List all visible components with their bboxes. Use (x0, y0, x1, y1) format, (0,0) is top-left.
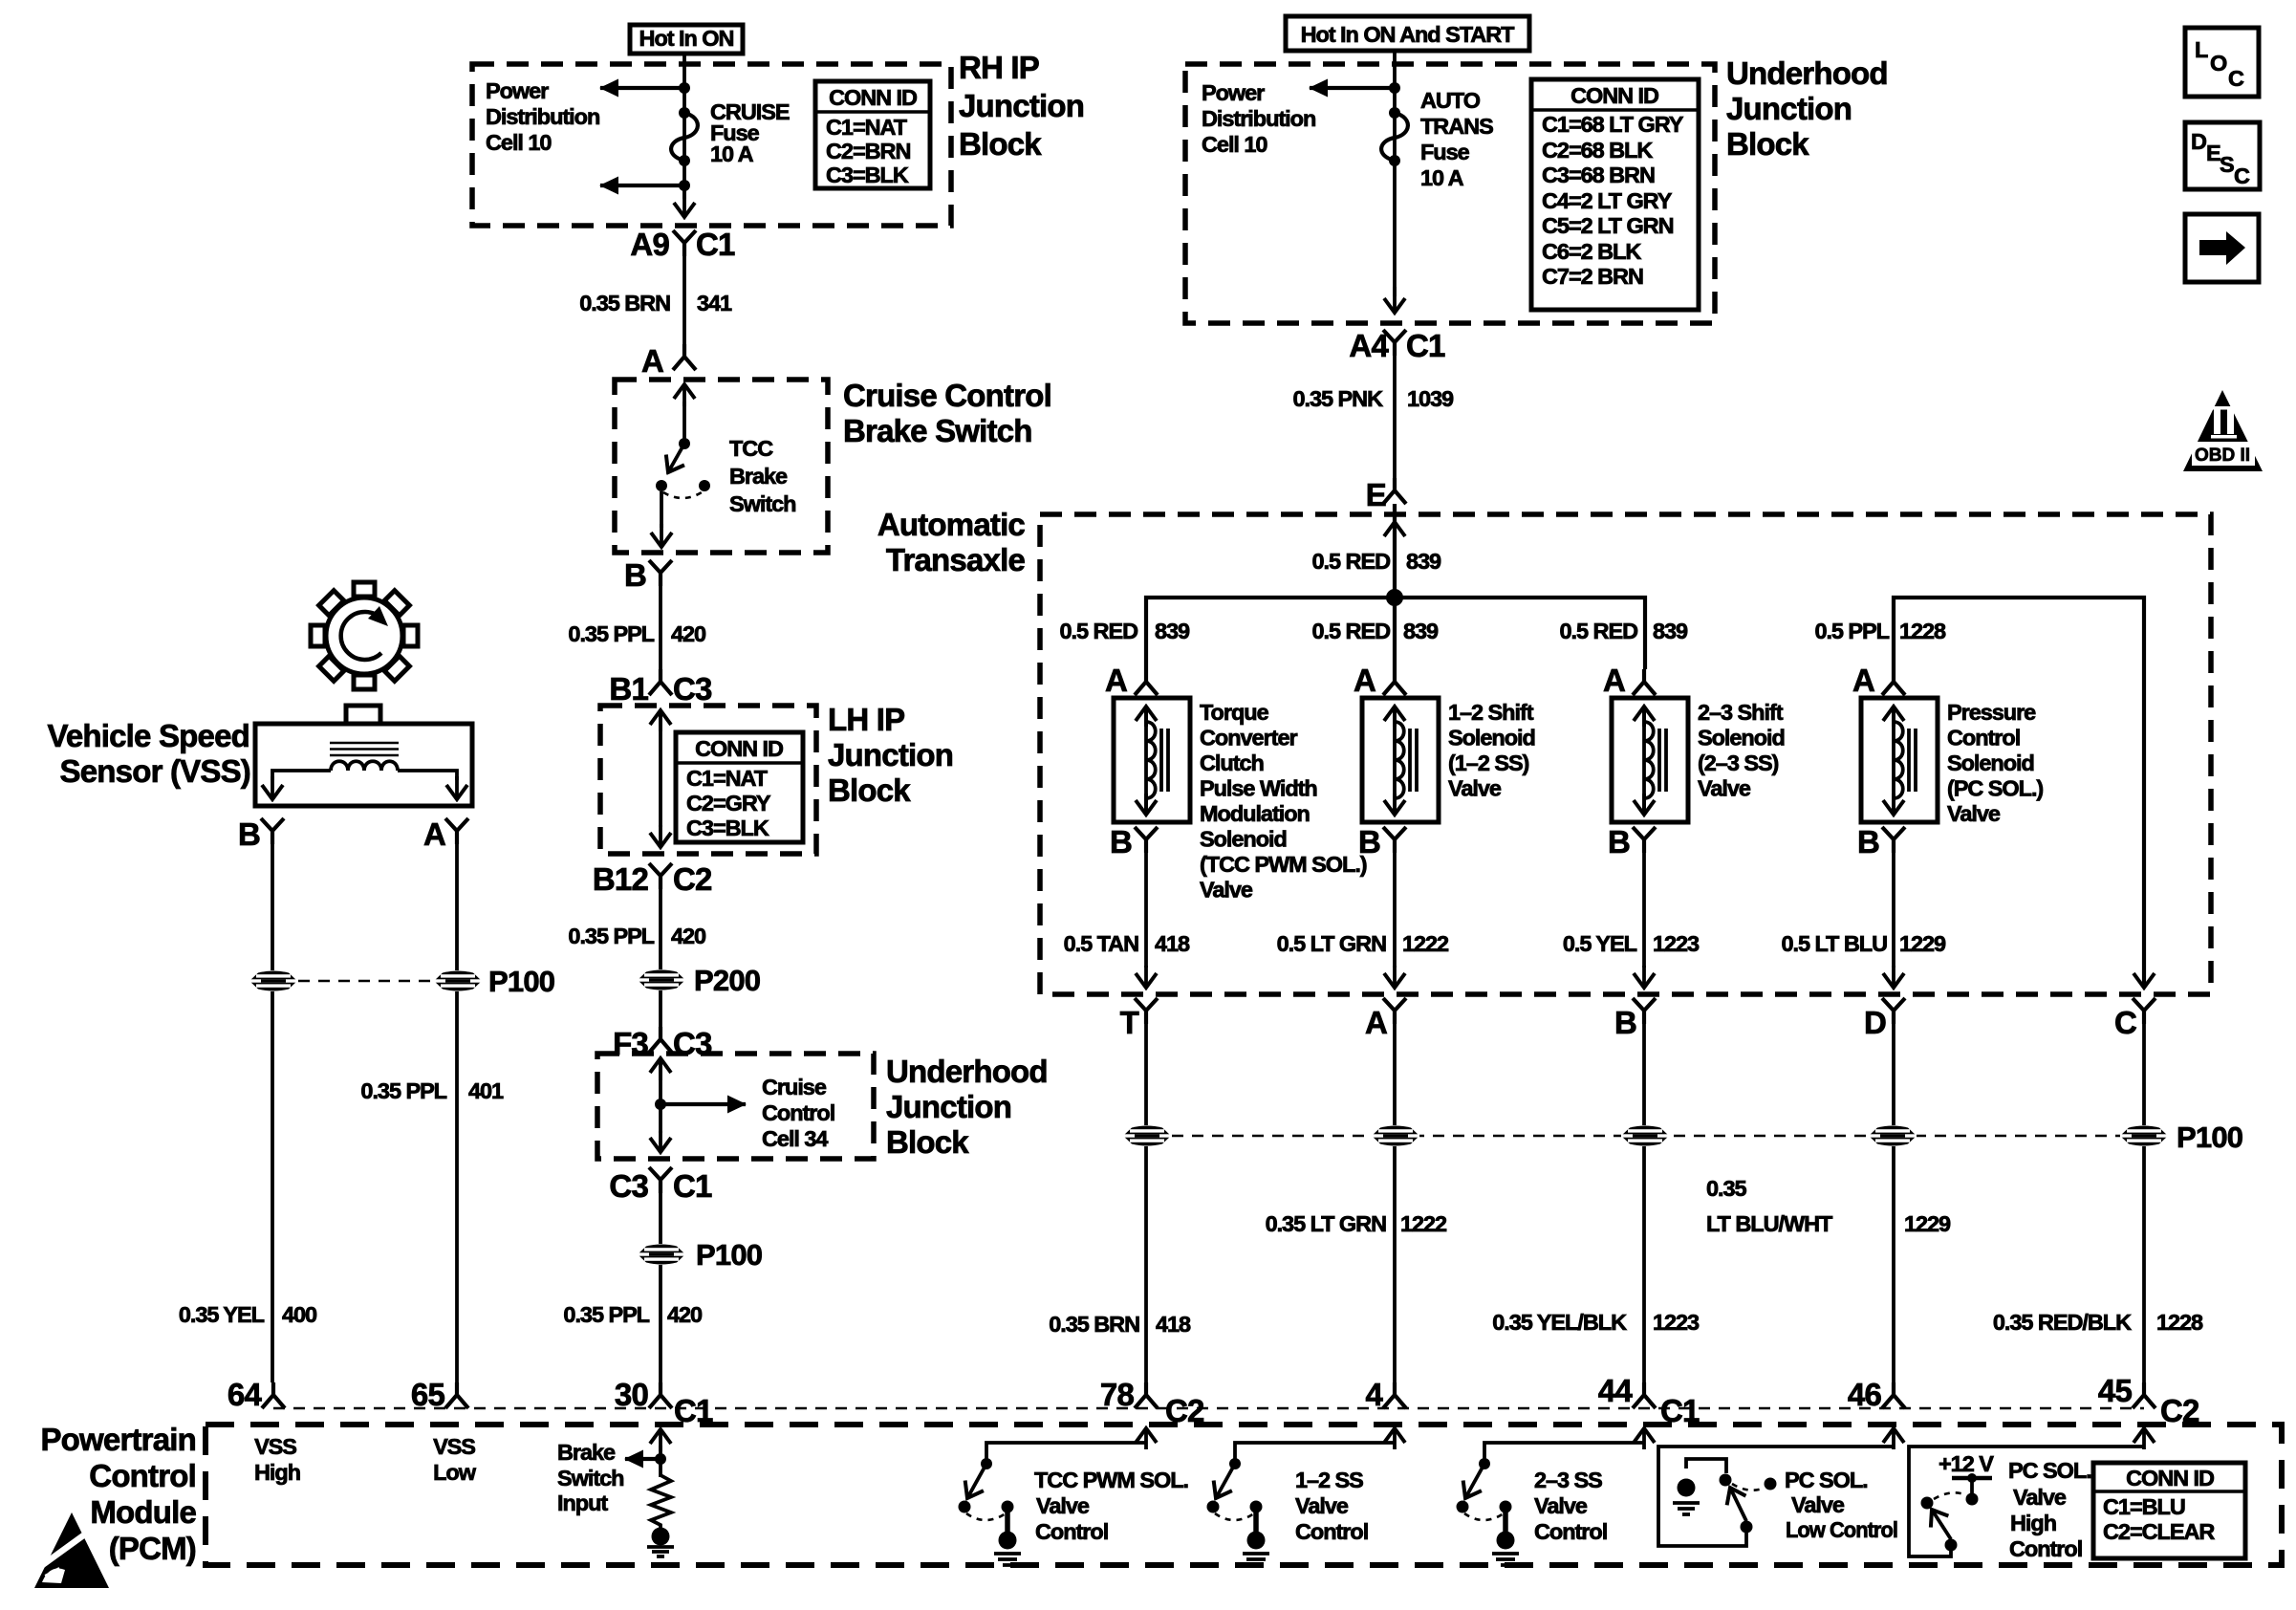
svg-text:Valve: Valve (1448, 776, 1502, 801)
wire to F3 (659, 990, 662, 1027)
svg-text:1228: 1228 (2156, 1310, 2203, 1335)
wire to P100 (659, 1192, 662, 1244)
PCM connector face dashed line (273, 1407, 2144, 1410)
svg-text:Pressure: Pressure (1947, 700, 2036, 725)
svg-text:1229: 1229 (1904, 1211, 1951, 1236)
svg-text:C3=BLK: C3=BLK (686, 816, 769, 840)
svg-text:TCC PWM SOL.: TCC PWM SOL. (1034, 1468, 1188, 1492)
svg-text:Cell 10: Cell 10 (1202, 132, 1267, 157)
svg-text:Clutch: Clutch (1200, 751, 1264, 775)
connector A of TCC PWM solenoid (1105, 663, 1158, 698)
connector T (1120, 998, 1158, 1040)
svg-text:C3=68 BRN: C3=68 BRN (1542, 163, 1655, 187)
ESD sensitivity symbol (31, 1512, 109, 1588)
wire through LH IP block (659, 710, 662, 847)
RH IP Junction Block dashed box (472, 64, 951, 226)
wire 400 YEL lower (271, 991, 274, 1382)
svg-text:L: L (2195, 37, 2208, 62)
node A cruise brake switch (641, 343, 696, 379)
fuse CRUISE 10A (671, 99, 790, 166)
svg-text:10 A: 10 A (710, 141, 754, 166)
svg-text:C3=BLK: C3=BLK (826, 163, 909, 187)
svg-text:Cell 10: Cell 10 (486, 130, 552, 155)
svg-text:Modulation: Modulation (1200, 801, 1310, 826)
value label 0.35 BRN 418 (1049, 1312, 1191, 1337)
svg-text:1–2 SS: 1–2 SS (1295, 1468, 1363, 1492)
grommet on VSS B wire (249, 971, 297, 991)
svg-text:Distribution: Distribution (1202, 106, 1315, 131)
svg-text:P100: P100 (696, 1238, 762, 1272)
svg-text:Underhood: Underhood (886, 1054, 1048, 1089)
wire D to P100 (1892, 1023, 1895, 1125)
value label 0.35 YEL 400 (179, 1302, 317, 1327)
svg-text:0.5 PPL: 0.5 PPL (1814, 619, 1889, 643)
svg-text:Power: Power (486, 78, 549, 103)
connector B12 / C2 (593, 861, 712, 897)
connector B of pressure control solenoid (1857, 824, 1905, 859)
svg-text:Valve: Valve (1947, 801, 2001, 826)
svg-text:Brake Switch: Brake Switch (843, 413, 1032, 448)
label Underhood Junction Block (1726, 55, 1888, 162)
label TCC PWM SOL Valve Control (1034, 1468, 1188, 1544)
svg-text:C1=NAT: C1=NAT (826, 115, 908, 140)
value label 0.35 LT GRN 1222 (1266, 1211, 1447, 1236)
pin 44 connector C1 (1598, 1373, 1700, 1428)
OBD II triangle icon (2183, 390, 2263, 471)
wire 1223 YEL/BLK lower (1642, 1146, 1646, 1382)
wire 418 BRN lower (1144, 1146, 1148, 1382)
svg-text:420: 420 (667, 1302, 703, 1327)
svg-text:0.5 LT GRN: 0.5 LT GRN (1277, 931, 1386, 956)
svg-text:4: 4 (1365, 1377, 1383, 1412)
svg-text:Control: Control (1035, 1519, 1108, 1544)
svg-text:Cell 34: Cell 34 (762, 1126, 828, 1151)
svg-text:Valve: Valve (2013, 1485, 2067, 1510)
svg-text:418: 418 (1155, 931, 1190, 956)
svg-text:420: 420 (671, 621, 706, 646)
svg-text:B: B (1358, 824, 1380, 859)
wire 1039 PNK (1393, 355, 1397, 478)
svg-text:418: 418 (1156, 1312, 1191, 1337)
svg-text:Block: Block (886, 1124, 969, 1160)
svg-text:Sensor (VSS): Sensor (VSS) (60, 753, 250, 789)
svg-text:Solenoid: Solenoid (1947, 751, 2034, 775)
svg-text:C2=68 BLK: C2=68 BLK (1542, 138, 1653, 163)
svg-text:0.35 RED/BLK: 0.35 RED/BLK (1993, 1310, 2132, 1335)
svg-text:LT BLU/WHT: LT BLU/WHT (1706, 1211, 1833, 1236)
connector F3 / C3 (613, 1026, 712, 1061)
svg-text:C1=BLU: C1=BLU (2103, 1494, 2185, 1519)
wire 839 RED trunk from E (1393, 504, 1397, 669)
connector B (1614, 998, 1656, 1040)
svg-text:A: A (1354, 663, 1375, 698)
junction dot (679, 82, 690, 94)
grommet P100 on wire C (2120, 1120, 2242, 1154)
value label 0.35 PPL 420 (563, 1302, 703, 1327)
svg-text:VSS: VSS (254, 1434, 296, 1459)
Automatic Transaxle dashed box (1040, 514, 2211, 994)
svg-text:1223: 1223 (1653, 931, 1700, 956)
svg-text:839: 839 (1155, 619, 1190, 643)
svg-text:C7=2 BRN: C7=2 BRN (1542, 264, 1643, 289)
svg-text:0.35 PPL: 0.35 PPL (563, 1302, 649, 1327)
svg-text:CONN ID: CONN ID (1570, 83, 1658, 108)
svg-text:(PCM): (PCM) (109, 1531, 196, 1566)
svg-text:Valve: Valve (1791, 1492, 1845, 1517)
svg-text:B: B (1857, 824, 1879, 859)
svg-text:64: 64 (227, 1377, 263, 1412)
svg-text:1223: 1223 (1653, 1310, 1700, 1335)
svg-text:Hot In ON: Hot In ON (639, 26, 734, 51)
svg-text:44: 44 (1598, 1373, 1634, 1408)
svg-text:Low: Low (433, 1460, 477, 1485)
svg-text:0.5 LT BLU: 0.5 LT BLU (1782, 931, 1888, 956)
pin 78 connector C2 (1100, 1377, 1204, 1428)
svg-text:0.5 YEL: 0.5 YEL (1563, 931, 1637, 956)
connector B of 2-3 shift solenoid (1608, 824, 1656, 859)
label 1-2 Shift Solenoid (1448, 700, 1535, 801)
svg-text:420: 420 (671, 924, 706, 948)
pin 30 connector C1 (615, 1377, 713, 1428)
connector A of 1-2 shift solenoid (1354, 663, 1406, 698)
svg-text:Solenoid: Solenoid (1698, 726, 1785, 751)
svg-text:C2=BRN: C2=BRN (826, 139, 910, 163)
svg-text:B12: B12 (593, 861, 649, 897)
svg-text:1039: 1039 (1407, 386, 1454, 411)
svg-text:Junction: Junction (1726, 91, 1852, 126)
label PC SOL Valve High Control (2008, 1458, 2091, 1561)
svg-text:B1: B1 (609, 671, 648, 707)
wire 341 BRN (682, 255, 686, 344)
svg-text:Block: Block (828, 772, 911, 808)
svg-text:0.5 RED: 0.5 RED (1312, 549, 1391, 574)
svg-text:Valve: Valve (1698, 776, 1751, 801)
svg-text:C1: C1 (1406, 328, 1445, 363)
svg-text:0.35 PPL: 0.35 PPL (360, 1078, 446, 1103)
svg-text:Control: Control (762, 1100, 834, 1125)
connector A4 / C1 (1349, 328, 1445, 363)
svg-text:P100: P100 (488, 965, 554, 998)
Cruise Control Brake Switch dashed box (615, 380, 828, 553)
svg-text:Junction: Junction (828, 737, 953, 772)
label VSS High (254, 1434, 300, 1485)
svg-text:P200: P200 (694, 964, 760, 997)
svg-text:Valve: Valve (1534, 1493, 1588, 1518)
svg-text:0.35 BRN: 0.35 BRN (579, 291, 670, 315)
svg-text:Torque: Torque (1200, 700, 1269, 725)
svg-text:Powertrain: Powertrain (40, 1422, 196, 1457)
svg-text:VSS: VSS (433, 1434, 475, 1459)
label Power Distribution Cell 10 (486, 78, 599, 155)
pin 65 connector (411, 1377, 468, 1412)
svg-text:341: 341 (697, 291, 732, 315)
svg-text:RH IP: RH IP (959, 50, 1039, 85)
svg-text:Low Control: Low Control (1786, 1517, 1897, 1542)
svg-text:46: 46 (1848, 1377, 1882, 1412)
svg-text:2–3 SS: 2–3 SS (1534, 1468, 1602, 1492)
value label 0.35 PPL 401 (360, 1078, 504, 1103)
wire B to P100 (1642, 1023, 1646, 1125)
svg-text:C1: C1 (673, 1168, 712, 1204)
wire 418 TAN (1144, 852, 1148, 988)
svg-text:Junction: Junction (959, 88, 1084, 123)
wire from Hot In ON And START (1393, 51, 1397, 296)
connector A of VSS (423, 816, 468, 852)
wire down arrow to box edge (1393, 287, 1397, 313)
value label 0.35 RED/BLK 1228 (1993, 1310, 2203, 1335)
connector D (1864, 998, 1905, 1040)
driver switch TCC PWM (959, 1443, 1147, 1565)
label Powertrain Control Module (PCM) (40, 1422, 196, 1566)
junction dot (1389, 82, 1400, 94)
svg-text:B: B (1608, 824, 1630, 859)
svg-text:PC SOL.: PC SOL. (2008, 1458, 2091, 1483)
svg-text:Control: Control (89, 1458, 196, 1493)
svg-text:A4: A4 (1349, 328, 1389, 363)
label Automatic Transaxle (877, 507, 1026, 577)
svg-text:C5=2 LT GRN: C5=2 LT GRN (1542, 213, 1674, 238)
svg-text:1222: 1222 (1400, 1211, 1447, 1236)
svg-text:0.35 YEL: 0.35 YEL (179, 1302, 265, 1327)
svg-text:A: A (1852, 663, 1874, 698)
pin 44 up arrow (1642, 1428, 1646, 1449)
svg-text:A: A (641, 343, 663, 379)
label Underhood Junction Block (886, 1054, 1048, 1160)
driver switch 1-2 SS (1207, 1443, 1396, 1565)
svg-text:D: D (2191, 129, 2206, 154)
label 2-3 Shift Solenoid (1698, 700, 1785, 801)
svg-text:Transaxle: Transaxle (886, 542, 1026, 577)
svg-text:CONN ID: CONN ID (695, 736, 783, 761)
svg-text:1222: 1222 (1402, 931, 1449, 956)
value label 0.5 PPL 1228 (1814, 619, 1946, 643)
wire 839 bus (1146, 598, 1645, 669)
svg-text:Valve: Valve (1200, 878, 1253, 903)
svg-text:S: S (2220, 152, 2234, 177)
reluctor gear symbol (311, 582, 418, 689)
connector B of VSS (238, 816, 284, 852)
svg-text:O: O (2210, 51, 2227, 76)
Underhood Junction Block dashed box (1185, 64, 1715, 323)
value label 0.5 RED 839 center (1312, 619, 1440, 643)
wire feed arrow left lower (600, 184, 684, 187)
svg-text:(TCC PWM SOL.): (TCC PWM SOL.) (1200, 852, 1367, 877)
wire 400 YEL upper (271, 843, 274, 970)
svg-text:High: High (2010, 1511, 2056, 1535)
VSS sensor box (255, 706, 472, 806)
driver switch 2-3 SS (1457, 1443, 1645, 1565)
CONN ID table LH IP (676, 732, 803, 842)
svg-text:C2: C2 (2160, 1393, 2199, 1428)
wire through small junction block (655, 1058, 746, 1152)
wire 401 PPL upper (455, 843, 459, 970)
label Pressure Control Solenoid (1947, 700, 2043, 826)
svg-text:TCC: TCC (729, 436, 773, 461)
grommet P100 on VSS A wire (434, 965, 554, 998)
pin 45 connector C2 (2098, 1373, 2199, 1428)
svg-text:Cruise: Cruise (762, 1075, 827, 1099)
svg-text:839: 839 (1406, 549, 1441, 574)
pin 46 up arrow (1892, 1428, 1895, 1449)
svg-text:(2–3 SS): (2–3 SS) (1698, 751, 1779, 775)
svg-text:839: 839 (1653, 619, 1688, 643)
svg-text:OBD II: OBD II (2195, 446, 2250, 466)
grommet P100 on wire A (1372, 1126, 1419, 1146)
svg-text:C: C (2234, 163, 2250, 188)
svg-text:C2=GRY: C2=GRY (686, 791, 771, 816)
svg-text:Cruise Control: Cruise Control (843, 378, 1051, 413)
value label 0.35 PNK 1039 (1293, 386, 1455, 411)
driver switch PC SOL high with +12V (1909, 1447, 2144, 1556)
svg-text:0.35 PNK: 0.35 PNK (1293, 386, 1384, 411)
svg-text:Block: Block (959, 126, 1042, 162)
value label 0.5 RED 839 left (1060, 619, 1191, 643)
solenoid PC SOL (1861, 698, 1938, 822)
pin 78 up arrow (1144, 1428, 1148, 1449)
wire C to P100 (2142, 1023, 2146, 1125)
label Power Distribution Cell 10 (1202, 80, 1315, 157)
wire 420 PPL upper (659, 585, 662, 669)
CONN ID table PCM (2093, 1463, 2245, 1558)
svg-text:0.5 RED: 0.5 RED (1312, 619, 1391, 643)
svg-text:Control: Control (1947, 726, 2020, 751)
pin 45 up arrow (2142, 1428, 2146, 1449)
wire 1228 RED/BLK lower (2142, 1146, 2146, 1382)
value label 0.5 LT BLU 1229 (1782, 931, 1947, 956)
svg-text:Valve: Valve (1036, 1493, 1090, 1518)
solenoid 1-2 SS (1362, 698, 1439, 822)
svg-text:C3: C3 (673, 671, 712, 707)
svg-text:(PC SOL.): (PC SOL.) (1947, 776, 2043, 801)
corner icon next-page arrow (2185, 214, 2259, 282)
svg-text:C1: C1 (674, 1393, 713, 1428)
svg-text:Hot In ON And START: Hot In ON And START (1301, 22, 1516, 47)
svg-text:C1=68 LT GRY: C1=68 LT GRY (1542, 112, 1684, 137)
wire from Hot In ON into junction block (682, 54, 686, 199)
label Cruise Control Cell 34 (762, 1075, 834, 1151)
svg-text:C1=NAT: C1=NAT (686, 766, 769, 791)
wire 1222 LT GRN (1393, 852, 1397, 988)
svg-text:2–3 Shift: 2–3 Shift (1698, 700, 1784, 725)
svg-text:B: B (238, 816, 260, 852)
svg-text:0.35 PPL: 0.35 PPL (568, 924, 654, 948)
svg-text:A: A (1365, 1005, 1387, 1040)
svg-text:CONN ID: CONN ID (829, 85, 917, 110)
Powertrain Control Module dashed box (206, 1425, 2282, 1565)
svg-text:401: 401 (468, 1078, 504, 1103)
svg-text:D: D (1864, 1005, 1886, 1040)
pin 4 connector (1365, 1377, 1406, 1412)
svg-text:0.35 PPL: 0.35 PPL (568, 621, 654, 646)
svg-text:(1–2 SS): (1–2 SS) (1448, 751, 1529, 775)
pin 64 connector (227, 1377, 285, 1412)
label 1-2 SS Valve Control (1295, 1468, 1368, 1544)
svg-text:E: E (1366, 477, 1386, 512)
svg-text:Valve: Valve (1295, 1493, 1349, 1518)
svg-text:C4=2 LT GRY: C4=2 LT GRY (1542, 188, 1673, 213)
value label 0.35 YEL/BLK 1223 (1492, 1310, 1700, 1335)
svg-text:B: B (1614, 1005, 1636, 1040)
svg-text:Underhood: Underhood (1726, 55, 1888, 91)
value label 0.5 RED 839 right (1560, 619, 1689, 643)
label 2-3 SS Valve Control (1534, 1468, 1607, 1544)
svg-text:Module: Module (90, 1494, 196, 1530)
svg-text:65: 65 (411, 1377, 445, 1412)
svg-text:0.35 LT GRN: 0.35 LT GRN (1266, 1211, 1387, 1236)
svg-text:TRANS: TRANS (1420, 114, 1493, 139)
grommet P100 on wire T (1123, 1126, 1171, 1146)
wire down arrow to box edge (682, 191, 686, 217)
grommet pair dashed link (298, 980, 432, 983)
svg-text:C1: C1 (1660, 1393, 1700, 1428)
value label 0.5 TAN 418 (1064, 931, 1190, 956)
label Vehicle Speed Sensor (VSS) (47, 718, 250, 789)
svg-text:0.5 RED: 0.5 RED (1560, 619, 1638, 643)
value label 0.5 YEL 1223 (1563, 931, 1700, 956)
svg-text:P100: P100 (2177, 1120, 2242, 1154)
connector B below brake switch (624, 557, 672, 593)
wire feed arrow left (1310, 86, 1395, 90)
P100 connector row dashed line (1172, 1135, 2168, 1138)
driver switch PC SOL low with ground (1658, 1447, 1894, 1546)
svg-text:B: B (624, 557, 646, 593)
wire 1223 YEL (1642, 852, 1646, 988)
LH IP Junction Block dashed box (600, 706, 816, 854)
wire 401 PPL lower (455, 991, 459, 1382)
node Hot In ON (630, 25, 743, 54)
svg-text:Switch: Switch (557, 1466, 623, 1490)
connector A of pressure control solenoid (1852, 663, 1905, 698)
svg-text:Solenoid: Solenoid (1448, 726, 1535, 751)
svg-text:400: 400 (282, 1302, 317, 1327)
connector B of TCC PWM solenoid (1110, 824, 1158, 859)
svg-text:Input: Input (557, 1490, 608, 1515)
svg-text:0.5 TAN: 0.5 TAN (1064, 931, 1138, 956)
node E automatic transaxle (1366, 477, 1406, 512)
svg-text:30: 30 (615, 1377, 648, 1412)
wire 1229 LT BLU (1892, 852, 1895, 988)
svg-text:Control: Control (1295, 1519, 1368, 1544)
pin 4 up arrow (1393, 1428, 1397, 1449)
svg-text:Block: Block (1726, 126, 1809, 162)
svg-text:C6=2 BLK: C6=2 BLK (1542, 239, 1641, 264)
svg-text:B: B (1110, 824, 1132, 859)
svg-text:0.35 BRN: 0.35 BRN (1049, 1312, 1139, 1337)
svg-text:Junction: Junction (886, 1089, 1011, 1124)
wire feed arrow left upper (600, 86, 684, 90)
svg-text:PC SOL.: PC SOL. (1785, 1468, 1868, 1492)
wire 420 PPL lower (659, 1265, 662, 1382)
wire 1222 LT GRN lower (1393, 1146, 1397, 1382)
wire T to P100 (1144, 1023, 1148, 1125)
label PC SOL Valve Low Control (1785, 1468, 1897, 1542)
pin 46 connector (1848, 1377, 1905, 1412)
svg-text:0.35: 0.35 (1706, 1176, 1747, 1201)
label Brake Switch Input (557, 1440, 623, 1515)
connector C (2114, 998, 2155, 1040)
svg-text:Control: Control (2009, 1536, 2082, 1561)
svg-text:+12 V: +12 V (1939, 1451, 1994, 1476)
svg-text:A: A (1105, 663, 1127, 698)
wire 420 PPL middle (659, 888, 662, 969)
svg-text:Control: Control (1534, 1519, 1607, 1544)
label Torque Converter Clutch PWM Solenoid (1200, 700, 1367, 903)
svg-text:Vehicle Speed: Vehicle Speed (47, 718, 249, 753)
svg-text:Automatic: Automatic (877, 507, 1026, 542)
svg-text:T: T (1120, 1005, 1139, 1040)
svg-text:45: 45 (2098, 1373, 2133, 1408)
svg-text:C: C (2114, 1005, 2136, 1040)
